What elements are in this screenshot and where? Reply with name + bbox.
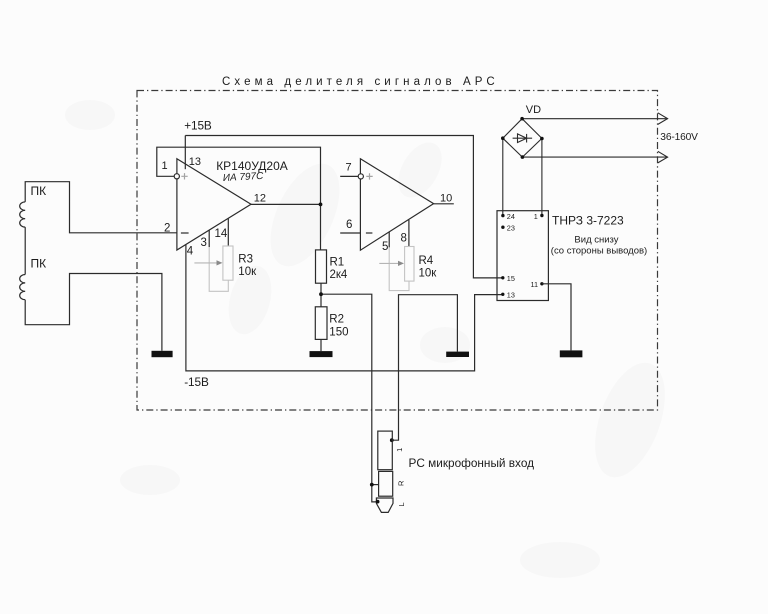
svg-text:ПК: ПК: [31, 257, 47, 271]
svg-text:11: 11: [531, 280, 539, 289]
svg-text:23: 23: [507, 224, 515, 233]
svg-text:R2: R2: [329, 314, 344, 326]
svg-text:+15В: +15В: [184, 118, 212, 132]
svg-text:1: 1: [395, 448, 404, 452]
svg-text:7: 7: [346, 162, 352, 174]
svg-text:24: 24: [507, 212, 515, 221]
svg-text:15: 15: [507, 274, 515, 283]
svg-text:-15В: -15В: [184, 375, 209, 389]
svg-text:4: 4: [187, 246, 194, 258]
svg-text:6: 6: [346, 219, 352, 231]
svg-text:ТНРЗ 3-7223: ТНРЗ 3-7223: [552, 214, 624, 228]
svg-text:R4: R4: [419, 255, 434, 267]
svg-text:36-160V: 36-160V: [660, 132, 698, 143]
svg-text:10: 10: [440, 192, 452, 204]
svg-text:12: 12: [254, 193, 266, 205]
svg-text:Схема делителя сигналов АРС: Схема делителя сигналов АРС: [222, 76, 499, 88]
svg-text:13: 13: [507, 291, 515, 300]
svg-text:L: L: [397, 502, 406, 506]
svg-text:5: 5: [382, 241, 388, 253]
svg-text:R: R: [397, 480, 406, 486]
svg-text:3: 3: [201, 237, 207, 249]
svg-text:R1: R1: [330, 257, 345, 269]
svg-text:R3: R3: [238, 254, 253, 266]
svg-text:1: 1: [534, 212, 538, 221]
svg-text:2: 2: [164, 223, 170, 235]
svg-text:PC микрофонный вход: PC микрофонный вход: [409, 456, 535, 470]
svg-text:10к: 10к: [419, 268, 438, 280]
svg-text:(со стороны выводов): (со стороны выводов): [551, 246, 647, 257]
svg-text:Вид снизу: Вид снизу: [574, 234, 618, 245]
svg-text:VD: VD: [526, 104, 541, 116]
svg-text:150: 150: [329, 327, 348, 339]
svg-text:2к4: 2к4: [330, 269, 348, 281]
svg-text:14: 14: [215, 228, 228, 240]
svg-text:13: 13: [189, 156, 201, 168]
svg-text:8: 8: [401, 233, 407, 245]
svg-text:ИА 797С: ИА 797С: [223, 171, 265, 184]
svg-text:10к: 10к: [238, 266, 257, 278]
svg-text:ПК: ПК: [31, 184, 47, 198]
svg-text:1: 1: [162, 160, 168, 172]
